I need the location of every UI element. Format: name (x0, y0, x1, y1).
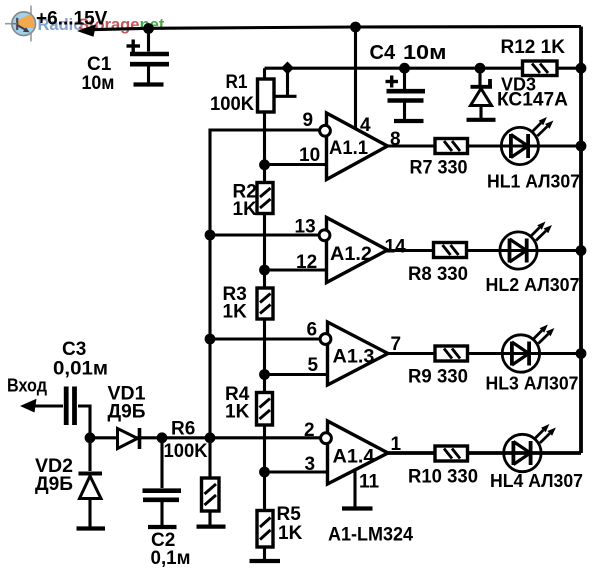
node pin3 (259, 467, 270, 478)
svg-text:Д9Б: Д9Б (35, 474, 73, 495)
svg-text:C4: C4 (370, 42, 396, 64)
wire pin6 (210, 337, 321, 340)
LED HL3 (502, 325, 554, 373)
svg-text:A1-LM324: A1-LM324 (328, 525, 413, 546)
ground pin11 (342, 506, 373, 510)
svg-text:A1.4: A1.4 (333, 447, 375, 468)
wire A1.3 output (388, 352, 581, 355)
capacitor C3 (66, 387, 74, 426)
R8 label (408, 264, 468, 285)
wire pin4 riser (354, 27, 357, 130)
C1 label (82, 54, 115, 94)
VD2 label (35, 456, 73, 495)
op-amp A1.2 (319, 218, 387, 283)
Вход label (7, 376, 48, 396)
resistor R6 (202, 438, 220, 525)
svg-text:1K: 1K (233, 199, 258, 220)
A1.2 pin labels (295, 217, 407, 274)
wire pin10 (265, 163, 328, 166)
wire pin12 (265, 268, 328, 271)
LED HL1 (501, 117, 553, 165)
power arrow (77, 24, 96, 37)
R2 label (233, 182, 258, 221)
wire pin3 (265, 470, 328, 473)
node pin10 (259, 159, 270, 170)
svg-text:R9 330: R9 330 (408, 367, 468, 388)
svg-text:11: 11 (359, 472, 380, 493)
HL4 label (490, 471, 583, 491)
wire A1.2 output (388, 249, 582, 252)
resistor R8 (434, 243, 467, 258)
node input corner / VD2 (85, 432, 96, 443)
svg-text:A1.3: A1.3 (333, 347, 375, 368)
diode VD1 (118, 428, 140, 449)
capacitor C1 (127, 29, 170, 84)
ground R5 (250, 559, 281, 563)
R5 label (277, 504, 303, 544)
ground C2 (148, 525, 177, 529)
node VD3 top (475, 63, 486, 74)
wire pin13 (210, 233, 321, 236)
C3 label (53, 339, 108, 380)
ground C1 (134, 82, 164, 86)
svg-text:R10 330: R10 330 (408, 467, 478, 488)
R4 label (225, 384, 250, 423)
svg-text:12: 12 (296, 252, 317, 273)
A1.3 pin labels (307, 320, 402, 377)
svg-text:9: 9 (303, 110, 314, 131)
R12 label (501, 37, 566, 58)
wire divider chain (263, 68, 266, 559)
resistor R12 (523, 61, 558, 76)
R9 label (408, 367, 468, 388)
R1 label (210, 72, 254, 115)
svg-text:100K: 100K (164, 441, 208, 462)
svg-text:100K: 100K (210, 94, 254, 115)
wire A1.4 output (388, 451, 581, 455)
svg-text:HL1 АЛ307: HL1 АЛ307 (487, 172, 580, 192)
svg-text:4: 4 (360, 115, 371, 136)
op-amp A1.3 (320, 322, 388, 385)
capacitor C4 (386, 68, 426, 119)
input arrow (20, 399, 37, 413)
+6...15V label (36, 9, 108, 30)
node bus pin6 (205, 334, 216, 345)
HL2 label (486, 275, 580, 295)
op-amp A1.4 (321, 421, 388, 484)
node pin12 (259, 265, 270, 276)
R10 label (408, 467, 478, 488)
HL1 label (487, 172, 580, 192)
wire pin11 (353, 469, 356, 507)
svg-text:2: 2 (304, 420, 315, 441)
wire right bus (579, 27, 583, 454)
R1 wiper (274, 62, 297, 97)
wire pin5 (265, 373, 328, 376)
wire +V top rail (84, 27, 581, 30)
svg-text:R8 330: R8 330 (408, 264, 468, 285)
svg-text:7: 7 (391, 334, 402, 355)
svg-text:A1.1: A1.1 (329, 138, 368, 159)
R6 label (164, 419, 208, 463)
resistor R5 (257, 511, 273, 548)
svg-text:3: 3 (305, 454, 316, 475)
svg-text:14: 14 (385, 237, 407, 258)
HL3 label (486, 374, 579, 394)
wire input line (34, 406, 321, 438)
svg-text:1K: 1K (225, 402, 250, 423)
capacitor C2 (143, 438, 182, 526)
R3 label (223, 284, 248, 323)
A1.4 pin labels (304, 420, 402, 493)
svg-text:R1: R1 (226, 72, 248, 93)
VD3 label (497, 75, 568, 111)
svg-text:8: 8 (390, 129, 401, 150)
ground VD2 (77, 526, 106, 530)
ground C4 (394, 119, 424, 123)
resistor R3 (257, 288, 273, 319)
op-amp A1.1 (320, 113, 388, 180)
node pin4 riser top (350, 22, 361, 33)
node HL2 bus (576, 245, 587, 256)
svg-text:HL4 АЛ307: HL4 АЛ307 (490, 471, 583, 491)
C2 label (151, 530, 191, 569)
node HL1 bus (576, 141, 587, 152)
zener VD3 (471, 68, 493, 118)
svg-text:6: 6 (307, 320, 318, 341)
LED HL2 (500, 222, 552, 270)
svg-text:КС147А: КС147А (497, 90, 568, 111)
node bus pin13 (205, 230, 216, 241)
svg-text:Вход: Вход (7, 376, 48, 396)
A1 chip label (328, 525, 413, 546)
svg-text:+6...15V: +6...15V (36, 9, 108, 30)
resistor R7 (435, 139, 468, 154)
svg-text:0,01м: 0,01м (53, 359, 108, 380)
watermark logo (5, 6, 36, 42)
resistor R1 (258, 79, 275, 112)
diode VD2 (79, 438, 103, 527)
svg-text:C1: C1 (87, 54, 112, 75)
wire left input bus (210, 130, 321, 438)
wire A1.1 output (388, 144, 582, 147)
node C2 junction (157, 432, 168, 443)
svg-text:HL3 АЛ307: HL3 АЛ307 (486, 374, 579, 394)
svg-text:R7 330: R7 330 (410, 158, 468, 179)
node R12 right (576, 63, 587, 74)
watermark text (38, 16, 165, 34)
wire reference row (265, 67, 582, 70)
svg-text:13: 13 (295, 217, 316, 238)
svg-text:10: 10 (299, 145, 320, 166)
svg-text:5: 5 (308, 355, 319, 376)
ground R6 (197, 524, 226, 528)
svg-text:A1.2: A1.2 (330, 244, 372, 265)
svg-text:R5: R5 (277, 504, 302, 525)
svg-text:R6: R6 (171, 419, 195, 440)
A1.1 pin labels (299, 110, 401, 166)
svg-text:C3: C3 (62, 339, 86, 360)
svg-text:10м: 10м (403, 42, 447, 64)
svg-text:Д9Б: Д9Б (108, 402, 146, 423)
node HL3 bus (576, 348, 587, 359)
svg-text:1K: 1K (278, 523, 303, 544)
node C1 top (143, 23, 154, 34)
C4 label (370, 42, 447, 64)
svg-text:1K: 1K (223, 302, 248, 323)
ground VD3 (467, 118, 496, 122)
svg-text:R12 1K: R12 1K (501, 37, 566, 58)
VD1 label (108, 384, 146, 423)
R7 label (410, 158, 468, 179)
svg-text:HL2 АЛ307: HL2 АЛ307 (486, 275, 580, 295)
resistor R10 (435, 446, 468, 461)
node pin5 (259, 369, 270, 380)
node R6 junction (205, 432, 216, 443)
resistor R4 (257, 393, 273, 426)
LED HL4 (504, 424, 556, 472)
svg-text:10м: 10м (82, 73, 115, 94)
resistor R9 (435, 346, 468, 361)
resistor R2 (257, 183, 273, 214)
svg-text:0,1м: 0,1м (151, 548, 191, 569)
node C4 top (399, 63, 410, 74)
svg-text:1: 1 (391, 434, 402, 455)
